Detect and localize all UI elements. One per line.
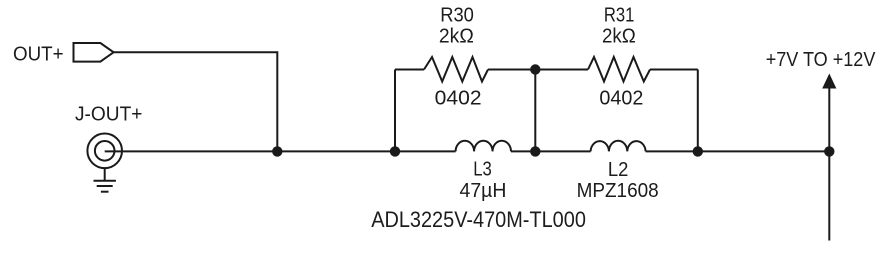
ground (below J-OUT+) (94, 168, 116, 192)
svg-text:L2: L2 (608, 159, 629, 181)
wire main net: jack to L3 (105, 150, 456, 152)
svg-text:2kΩ: 2kΩ (439, 26, 474, 48)
junction dot supply node (824, 146, 834, 156)
svg-text:R31: R31 (604, 5, 635, 27)
jack J-OUT+ inner circle (95, 141, 115, 161)
svg-text:+7V TO +12V: +7V TO +12V (766, 49, 876, 71)
svg-text:MPZ1608: MPZ1608 (577, 180, 659, 202)
svg-text:2kΩ: 2kΩ (602, 26, 636, 48)
svg-text:L3: L3 (473, 159, 492, 181)
svg-text:0402: 0402 (599, 88, 643, 110)
wire: +7V supply stem (828, 86, 830, 241)
wire vertical: main net up to R30 left (394, 70, 396, 152)
power arrow +7V TO +12V (822, 74, 836, 89)
wire: R30 left lead (395, 69, 424, 71)
svg-text:J-OUT+: J-OUT+ (75, 104, 142, 126)
wire main net: L3 to L2 (511, 150, 591, 152)
junction dot middle tap top (530, 64, 540, 74)
resistor R31 (588, 57, 650, 82)
junction dot at R30 branch (390, 146, 400, 156)
junction dot R31 right bottom (693, 146, 703, 156)
jack J-OUT+ (coax connector, outer circle) (87, 134, 122, 169)
resistor R30 (424, 57, 488, 82)
inductor L3 (456, 141, 511, 152)
wire vertical: R31 right down to main net (697, 70, 699, 152)
svg-text:OUT+: OUT+ (13, 43, 64, 65)
svg-text:R30: R30 (440, 5, 474, 27)
svg-text:ADL3225V-470M-TL000: ADL3225V-470M-TL000 (371, 207, 586, 232)
connector OUT+ (flag symbol) (74, 43, 114, 62)
wire main net: L2 to +7V node (646, 150, 830, 152)
wire OUT+ flag to junction at node A (114, 52, 278, 151)
junction dot node A (OUT+ join) (272, 146, 282, 156)
wire vertical: middle tap R30/R31 junction down to main net (534, 70, 536, 152)
inductor L2 (591, 141, 646, 152)
wire: R30 right to R31 left (488, 69, 588, 71)
wire: R31 right lead (650, 69, 698, 71)
svg-text:47µH: 47µH (460, 180, 507, 202)
svg-text:0402: 0402 (435, 88, 482, 110)
junction dot middle tap bottom (530, 146, 540, 156)
